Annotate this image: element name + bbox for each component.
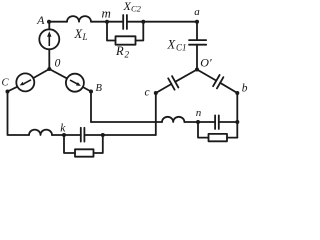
wire k branch down	[64, 135, 75, 153]
resistor k branch	[75, 149, 94, 156]
wire XL to m	[91, 21, 107, 23]
wire coil to k	[52, 134, 64, 136]
svg-text:L: L	[82, 32, 88, 42]
inductor XL	[67, 16, 91, 22]
svg-text:n: n	[196, 107, 202, 119]
node junction k right	[101, 133, 105, 137]
node A	[47, 20, 51, 24]
node O'	[195, 68, 199, 72]
node k	[62, 133, 66, 137]
wire n to capacitor	[198, 121, 215, 123]
capacitor k	[81, 128, 85, 142]
node junction top	[141, 20, 145, 24]
wire EC to C	[8, 87, 18, 92]
wire O to source EC	[33, 69, 49, 78]
wire n down branch	[198, 122, 209, 138]
svg-text:c: c	[145, 87, 150, 99]
wire b down	[236, 93, 238, 138]
wire resistor k to junction	[94, 135, 103, 153]
wire EB to B	[83, 87, 91, 92]
svg-text:2: 2	[125, 50, 130, 60]
wire junction to a	[143, 21, 197, 23]
svg-text:b: b	[242, 83, 248, 95]
arrow EA	[47, 31, 51, 46]
wire O to source EB	[49, 69, 67, 78]
source EC circle	[16, 73, 34, 91]
wire m down to R2 branch	[107, 22, 116, 41]
capacitor XC1	[189, 40, 206, 45]
node O	[47, 67, 51, 71]
node b	[235, 91, 239, 95]
svg-text:R: R	[115, 44, 124, 58]
svg-text:0: 0	[55, 58, 61, 70]
wire XC2 to junction	[127, 21, 143, 23]
wire capacitor to junction b	[219, 121, 238, 123]
wire resistor to b vertical	[227, 137, 237, 139]
wire coil to n	[184, 121, 198, 123]
wire C down and to coil	[8, 92, 30, 136]
wire XC1 to O'	[196, 45, 198, 70]
svg-text:k: k	[60, 123, 66, 135]
node n	[196, 120, 200, 124]
node C	[6, 90, 10, 94]
source EB circle	[66, 74, 84, 92]
wire capacitor to node b	[220, 83, 237, 93]
wire a down to XC1	[196, 22, 198, 40]
inductor rail	[29, 130, 52, 135]
wire O' to capacitor phase b	[197, 70, 216, 81]
arrow EC	[20, 79, 32, 85]
wire rail right section	[103, 134, 156, 136]
capacitor O'-c	[168, 76, 178, 90]
wire A down to source EA	[48, 22, 50, 30]
capacitor XC2	[123, 15, 127, 29]
arrow EB	[70, 79, 81, 86]
node junction b line	[235, 120, 239, 124]
wire c down crossing B line	[155, 93, 157, 135]
inductor B line	[162, 117, 184, 122]
resistor n branch	[209, 134, 228, 141]
source EA circle	[39, 29, 59, 49]
capacitor n branch	[215, 115, 219, 129]
node a	[195, 20, 199, 24]
node B	[89, 90, 93, 94]
capacitor O'-b	[213, 75, 223, 88]
wire capacitor k to junction	[84, 134, 102, 136]
svg-text:C1: C1	[176, 43, 187, 53]
node m	[105, 20, 109, 24]
wire capacitor to node c	[156, 84, 172, 93]
resistor R2	[116, 36, 136, 44]
wire A to XL	[49, 21, 67, 23]
svg-text:B: B	[96, 83, 103, 94]
svg-text:C2: C2	[131, 4, 142, 14]
wire m to XC2	[107, 21, 123, 23]
svg-text:O′: O′	[200, 55, 212, 69]
svg-text:A: A	[36, 13, 45, 27]
wire EA to O	[48, 49, 50, 69]
wire B horizontal to coil	[91, 121, 162, 123]
wire R2 to junction	[136, 22, 144, 41]
svg-text:X: X	[167, 38, 177, 52]
wire k to capacitor	[64, 134, 81, 136]
svg-text:a: a	[194, 6, 200, 18]
wire O' to capacitor phase c	[175, 70, 197, 82]
wire B down	[90, 92, 92, 123]
svg-text:C: C	[2, 78, 10, 89]
svg-text:m: m	[102, 6, 111, 21]
node c	[154, 91, 158, 95]
